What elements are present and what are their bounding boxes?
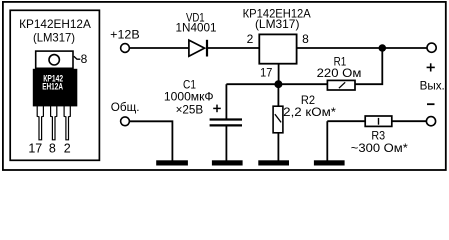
svg-text:2: 2 xyxy=(247,32,254,46)
terminal Общ xyxy=(121,117,130,126)
resistor R3 body xyxy=(365,116,392,126)
IC package U1 pin lead 2 xyxy=(64,103,70,140)
wire C1 to ground xyxy=(225,125,227,160)
terminal Вых − xyxy=(426,117,435,126)
svg-text:(LM317): (LM317) xyxy=(33,31,75,45)
IC package U1 plastic body xyxy=(33,69,78,107)
svg-text:×25В: ×25В xyxy=(176,102,204,116)
svg-text:~300 Ом*: ~300 Ом* xyxy=(351,141,408,155)
tab leader line to pin 8 xyxy=(74,56,81,59)
resistor R2 power slash xyxy=(275,114,281,122)
junction node output/R1 xyxy=(379,44,387,52)
diode VD1 anode triangle xyxy=(189,40,205,56)
svg-text:2,2 кОм*: 2,2 кОм* xyxy=(283,105,336,119)
svg-text:Вых.: Вых. xyxy=(420,78,445,92)
wire pin 8 to output xyxy=(297,47,427,49)
terminal Вых + xyxy=(427,43,436,52)
wire ADJ to R2 xyxy=(277,84,279,106)
resistor R3 power tick xyxy=(378,118,380,125)
svg-text:8: 8 xyxy=(81,52,88,66)
terminal +12В xyxy=(121,44,130,53)
minus sign output xyxy=(427,103,435,105)
wire R1 to output junction xyxy=(355,48,382,84)
wire R3 to terminal xyxy=(392,120,427,122)
svg-text:ЕН12А: ЕН12А xyxy=(42,81,63,91)
resistor R2 body xyxy=(273,106,283,133)
IC package U1 metal tab xyxy=(36,51,73,68)
wire R2 to ground xyxy=(277,133,279,161)
plus sign output xyxy=(427,66,435,68)
wire Общ to ground xyxy=(129,121,172,160)
capacitor C1 top plate xyxy=(210,118,242,120)
svg-text:17: 17 xyxy=(28,142,42,156)
pinout panel box xyxy=(10,10,99,160)
ground R3 xyxy=(314,160,345,165)
wire pin 17 down xyxy=(278,64,280,84)
wire VD1 to pin 2 xyxy=(207,47,259,49)
ground Общ xyxy=(156,160,188,165)
capacitor C1 bottom plate xyxy=(210,124,242,126)
regulator U1 КР142ЕН12А box xyxy=(259,34,296,63)
ground R2 xyxy=(258,160,289,165)
svg-text:17: 17 xyxy=(260,65,272,79)
IC package U1 pin lead 8 xyxy=(51,103,57,140)
capacitor C1 plus sign xyxy=(213,107,221,109)
IC package U1 pin lead 17 xyxy=(37,103,43,140)
wire ground corner to R3 xyxy=(327,120,365,122)
svg-text:8: 8 xyxy=(49,142,56,156)
resistor R1 power slash xyxy=(339,82,345,88)
junction node ADJ xyxy=(274,80,282,88)
svg-text:8: 8 xyxy=(302,32,309,46)
IC package U1 mounting hole xyxy=(49,55,59,65)
wire +12В to VD1 xyxy=(130,47,189,49)
svg-text:2: 2 xyxy=(64,142,71,156)
svg-text:+12В: +12В xyxy=(110,28,140,42)
svg-text:(LM317): (LM317) xyxy=(255,17,300,31)
svg-text:Общ.: Общ. xyxy=(111,100,140,114)
svg-text:1N4001: 1N4001 xyxy=(176,21,217,35)
svg-text:1000мкФ: 1000мкФ xyxy=(164,90,214,104)
svg-text:220 Ом: 220 Ом xyxy=(317,66,362,80)
resistor R1 body xyxy=(327,80,355,90)
wire ADJ rail xyxy=(226,83,327,85)
wire R3 to ground xyxy=(326,121,328,160)
wire ADJ to C1 xyxy=(225,84,227,119)
diode VD1 cathode bar xyxy=(206,40,208,57)
svg-text:КР142ЕН12А: КР142ЕН12А xyxy=(19,17,91,31)
ground C1 xyxy=(212,160,243,165)
